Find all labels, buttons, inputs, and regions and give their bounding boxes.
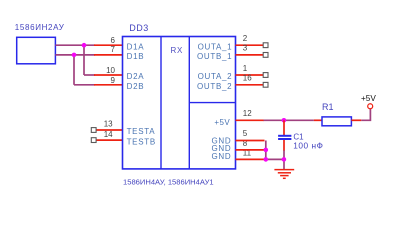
wire R1 to +5V port <box>361 109 370 120</box>
terminal square pin2 <box>263 43 268 48</box>
svg-text:100 нФ: 100 нФ <box>293 141 323 151</box>
wire net D1A from U1 <box>55 44 95 46</box>
pin 11 stub GND <box>236 158 265 160</box>
pin 12 stub +5V <box>236 119 265 121</box>
capacitor C1 bottom pin <box>283 140 285 151</box>
op IC DD3 body <box>123 37 236 169</box>
pin 10 stub D2A <box>94 74 123 76</box>
pin 5 stub GND <box>236 140 265 142</box>
terminal square pin16 <box>263 82 268 87</box>
terminal square TESTA <box>91 128 96 133</box>
pin 1 stub OUTA_2 <box>236 74 264 76</box>
svg-text:10: 10 <box>106 66 115 75</box>
svg-text:13: 13 <box>104 120 113 129</box>
svg-text:D2A: D2A <box>127 72 145 81</box>
svg-text:14: 14 <box>104 130 113 139</box>
capacitor C1 bottom plate <box>278 138 291 140</box>
svg-text:OUTB_2: OUTB_2 <box>197 82 232 91</box>
wire to D2B pin <box>74 84 95 86</box>
svg-text:GND: GND <box>212 152 232 161</box>
svg-text:16: 16 <box>243 74 252 83</box>
capacitor C1 top plate <box>278 135 291 137</box>
wire vertical D2A branch <box>83 45 85 75</box>
svg-text:TESTA: TESTA <box>127 127 156 136</box>
svg-text:RX: RX <box>171 46 184 55</box>
wire +5V net to R1 <box>264 119 314 121</box>
svg-text:12: 12 <box>243 109 252 118</box>
wire to D2A pin <box>84 74 95 76</box>
pin 6 stub D1A <box>94 44 123 46</box>
svg-text:OUTB_1: OUTB_1 <box>197 52 232 61</box>
junction node +5V/C1 <box>282 118 287 123</box>
terminal square pin3 <box>263 53 268 58</box>
terminal square TESTB <box>91 138 96 143</box>
junction node GND pin11 <box>264 157 269 162</box>
resistor R1 body <box>322 117 351 126</box>
IC divider right column <box>188 37 190 169</box>
wire GND to ground point <box>266 158 284 160</box>
svg-text:1: 1 <box>243 64 248 73</box>
pin 8 stub GND <box>236 149 265 151</box>
svg-text:+5V: +5V <box>361 94 376 103</box>
svg-text:OUTA_2: OUTA_2 <box>198 72 233 81</box>
terminal square pin1 <box>263 73 268 78</box>
svg-text:1586ИН4АУ, 1586ИН4АУ1: 1586ИН4АУ, 1586ИН4АУ1 <box>123 178 214 187</box>
wire vertical D2B branch <box>73 55 75 85</box>
svg-text:9: 9 <box>111 76 116 85</box>
resistor R1 right pin <box>351 119 361 121</box>
svg-text:D2B: D2B <box>127 82 145 91</box>
wire cap to junction <box>283 150 285 159</box>
pin 9 stub D2B <box>94 84 123 86</box>
svg-text:+5V: +5V <box>214 118 230 127</box>
wire junction to ground symbol <box>283 159 285 169</box>
capacitor C1 top pin <box>283 120 285 135</box>
wire GND vertical bus <box>265 141 267 160</box>
junction node D1A <box>82 43 87 48</box>
wire net D1B from U1 <box>55 54 95 56</box>
IC divider horizontal right section <box>189 102 235 104</box>
port +5V circle <box>368 104 373 109</box>
svg-text:D1B: D1B <box>127 52 145 61</box>
ground symbol <box>274 170 294 179</box>
svg-text:7: 7 <box>111 45 116 54</box>
pin 14 stub TESTB <box>96 139 122 141</box>
svg-text:3: 3 <box>243 44 248 53</box>
junction node C1 bottom <box>282 157 287 162</box>
pin 16 stub OUTB_2 <box>236 84 264 86</box>
pin 3 stub OUTB_1 <box>236 54 264 56</box>
pin 7 stub D1B <box>94 54 123 56</box>
IC divider left column <box>160 37 162 169</box>
svg-text:5: 5 <box>243 129 248 138</box>
junction node D1B <box>72 53 77 58</box>
resistor R1 left pin <box>314 119 322 121</box>
junction node GND pin8 <box>264 148 269 153</box>
svg-text:TESTB: TESTB <box>127 137 156 146</box>
part U1 1586ИН2АУ box <box>17 37 56 64</box>
svg-text:OUTA_1: OUTA_1 <box>198 42 233 51</box>
pin 2 stub OUTA_1 <box>236 44 264 46</box>
svg-text:1586ИН2АУ: 1586ИН2АУ <box>15 23 65 32</box>
pin 13 stub TESTA <box>96 129 122 131</box>
svg-text:R1: R1 <box>322 102 334 112</box>
svg-text:2: 2 <box>243 34 248 43</box>
svg-text:D1A: D1A <box>127 42 145 51</box>
svg-text:DD3: DD3 <box>129 23 148 33</box>
